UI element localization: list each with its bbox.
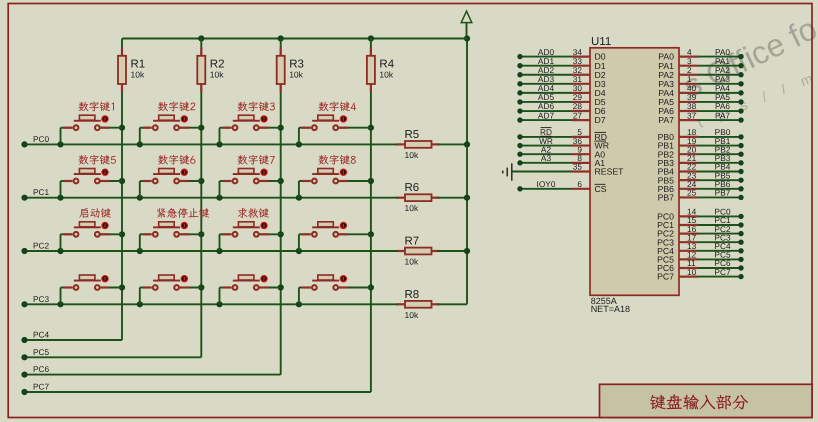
label 数字键7 [238,155,275,165]
terminal dot PC3 [21,301,27,307]
junction PC3 button col 4 [296,301,302,307]
label 数字键5 [79,155,116,165]
svg-text:10k: 10k [289,70,303,80]
terminal dot PC6 [21,372,27,378]
junction PC1 button col 3 [216,195,222,201]
junction column 4 row 4 [368,284,374,290]
wire R5 to rail [437,143,467,145]
svg-text:PA7: PA7 [658,115,674,125]
junction column 4 row 1 [368,125,374,131]
junction R5-rail [464,141,470,147]
terminal dot PC5 [21,354,27,360]
U11 pin 36 WR (net WR) [517,136,609,151]
wire R6 to rail [437,197,467,199]
junction bus-column 3 [278,35,284,41]
U11 pin 10 PC7 (net PC7) [657,267,744,282]
U11 pin 16 PC2 (net PC2) [657,224,744,239]
push-button 求救键 [220,222,281,251]
label 数字键6 [158,155,195,165]
push-button row4 col1 [61,275,123,304]
push-button 数字键2 [140,115,202,144]
junction column 2 row 3 [198,231,204,237]
label 紧急停止键 [157,208,209,218]
U11 pin 9 A0 (net A2) [517,144,605,159]
U11 pin 34 D0 (net AD0) [517,47,605,62]
svg-text:R5: R5 [405,129,420,141]
junction PC1 button col 1 [57,195,63,201]
label 数字键2 [158,101,195,111]
push-button row4 col3 [220,275,281,304]
U11 pin 3 PA1 (net PA1) [658,56,743,71]
push-button 数字键1 [61,115,123,144]
U11 pin 32 D2 (net AD2) [517,65,605,80]
junction rail-bus [464,35,470,41]
junction column 3 row 1 [278,125,284,131]
U11 pin 14 PC0 (net PC0) [657,207,744,222]
push-button 数字键8 [299,169,371,198]
U11 pin 18 PB0 (net PB0) [658,127,744,142]
terminal dot PC0 [21,141,27,147]
terminal dot PC2 [21,248,27,254]
push-button 数字键7 [220,169,281,198]
label 启动键 [79,208,111,218]
svg-text:PC3: PC3 [33,294,50,304]
IC U11 8255A body [590,48,679,295]
svg-text:R7: R7 [405,236,420,248]
junction PC2 button col 2 [137,248,143,254]
junction PC0 button col 4 [296,141,302,147]
svg-text:PC7: PC7 [657,272,674,282]
resistor R1 [118,48,126,93]
title text 键盘输入部分 [650,394,748,409]
junction PC0 button col 1 [57,141,63,147]
wire row PC7 [25,391,371,393]
svg-text:PC0: PC0 [33,134,50,144]
U11 pin 28 D6 (net AD6) [517,101,605,116]
junction column 2 row 1 [198,125,204,131]
U11 pin 30 D4 (net AD4) [517,83,605,98]
ground symbol (rotated) [503,163,512,180]
resistor R5 [397,141,440,148]
resistor R4 [367,48,375,93]
U11 pin 33 D1 (net AD1) [517,56,605,71]
junction column 3 row 2 [278,178,284,184]
svg-text:U11: U11 [591,36,611,48]
junction column 3 row 3 [278,231,284,237]
U11 pin 12 PC5 (net PC5) [657,250,744,265]
svg-text:R6: R6 [405,182,420,194]
label 数字键8 [319,155,356,165]
junction R7-rail [464,248,470,254]
push-button row4 col4 [299,275,371,304]
junction PC2 button col 1 [57,248,63,254]
wire row PC4 [25,339,123,341]
terminal dot PC7 [21,389,27,395]
junction column 1 row 4 [119,284,125,290]
U11 pin 24 PB6 (net PB6) [658,179,744,194]
U11 pin 11 PC6 (net PC6) [657,258,744,273]
U11 pin 2 PA2 (net PA2) [658,65,743,80]
wire power rail vertical [466,39,468,305]
svg-text:37: 37 [687,110,697,120]
svg-text:PC7: PC7 [714,267,731,277]
svg-text:25: 25 [687,188,697,198]
resistor R7 [397,248,440,255]
U11 pin 37 PA7 (net PA7) [658,110,743,125]
U11 pin 20 PB2 (net PB2) [658,144,744,159]
U11 pin 25 PB7 (net PB7) [658,188,744,203]
push-button row3 col4 [299,222,371,251]
U11 pin 29 D5 (net AD5) [517,92,605,107]
junction column 1 row 3 [119,231,125,237]
junction column 4 row 2 [368,178,374,184]
wire column 4 [370,39,372,393]
push-button 紧急停止键 [140,222,202,251]
svg-text:10k: 10k [405,203,419,213]
label 求救键 [238,208,269,218]
svg-text:PC2: PC2 [33,241,50,251]
junction PC0 button col 2 [137,141,143,147]
junction PC2 button col 4 [296,248,302,254]
title block bar [600,384,813,417]
U11 pin 1 PA3 (net PA3) [658,74,743,89]
svg-text:PB7: PB7 [715,188,731,198]
junction bus-column 4 [368,35,374,41]
terminal dot PC4 [21,337,27,343]
resistor R3 [277,48,285,93]
wire top bus [122,38,467,40]
U11 pin 27 D7 (net AD7) [517,110,605,125]
junction column 2 row 4 [198,284,204,290]
wire column 3 [280,39,282,375]
junction PC3 button col 2 [137,301,143,307]
svg-text:PA7: PA7 [715,110,730,120]
junction PC2 button col 3 [216,248,222,254]
svg-text:10k: 10k [405,310,419,320]
svg-text:PC7: PC7 [33,382,50,392]
svg-text:D7: D7 [595,115,606,125]
svg-text:10: 10 [687,267,697,277]
U11 pin 23 PB5 (net PB5) [658,170,744,185]
svg-text:10k: 10k [379,70,393,80]
U11 pin 39 PA5 (net PA5) [658,92,743,107]
junction PC3 button col 1 [57,301,63,307]
resistor R8 [397,301,440,308]
wire R7 to rail [437,250,467,252]
U11 pin 38 PA6 (net PA6) [658,101,743,116]
resistor R2 [197,48,205,93]
resistor R6 [397,194,440,201]
svg-text:CS: CS [595,184,607,194]
U11 pin 13 PC4 (net PC4) [657,241,744,256]
junction column 3 row 4 [278,284,284,290]
svg-text:R8: R8 [405,289,420,301]
U11 pin 22 PB4 (net PB4) [658,162,744,177]
junction PC1 button col 4 [296,195,302,201]
U11 pin 5 RD (net RD) [517,127,607,142]
wire row PC6 [25,374,281,376]
push-button row4 col2 [140,275,202,304]
junction column 1 row 2 [119,178,125,184]
push-button 数字键3 [220,115,281,144]
svg-text:RESET: RESET [595,167,625,177]
U11 pin 6 CS (net IOY0) [517,179,606,194]
wire row PC1 [25,197,399,199]
label 数字键1 [79,101,114,111]
svg-text:10k: 10k [131,70,145,80]
svg-text:10k: 10k [405,257,419,267]
push-button 数字键5 [61,169,123,198]
svg-text:10k: 10k [210,70,224,80]
junction column 1 row 1 [119,125,125,131]
push-button 启动键 [61,222,123,251]
junction column 4 row 3 [368,231,374,237]
junction PC1 button col 2 [137,195,143,201]
svg-text:27: 27 [573,110,583,120]
wire R8 to rail [437,303,467,305]
wire column 2 [200,39,202,358]
svg-text:PC4: PC4 [33,330,50,340]
push-button 数字键6 [140,169,202,198]
svg-text:10k: 10k [405,150,419,160]
junction PC3 button col 3 [216,301,222,307]
svg-text:PC1: PC1 [33,187,50,197]
junction column 2 row 2 [198,178,204,184]
svg-text:NET=A18: NET=A18 [591,304,630,314]
wire row PC3 [25,303,399,305]
wire column 1 [121,39,123,341]
svg-text:6: 6 [577,179,582,189]
watermark text [678,10,818,131]
U11 pin 40 PA4 (net PA4) [658,83,743,98]
label 数字键3 [238,101,275,111]
U11 pin 17 PC3 (net PC3) [657,232,744,247]
svg-text:AD7: AD7 [538,110,555,120]
svg-text:IOY0: IOY0 [537,179,556,189]
U11 pin 31 D3 (net AD3) [517,74,605,89]
wire row PC5 [25,356,202,358]
U11 pin 15 PC1 (net PC1) [657,215,744,230]
U11 pin 8 A1 (net A3) [517,153,605,168]
push-button 数字键4 [299,115,371,144]
power terminal arrow [461,11,472,38]
U11 pin 19 PB1 (net PB1) [658,136,744,151]
label 数字键4 [319,101,357,111]
U11 pin 21 PB3 (net PB3) [658,153,744,168]
svg-text:PC5: PC5 [33,347,50,357]
wire row PC0 [25,143,399,145]
svg-text:35: 35 [573,162,583,172]
svg-text:A3: A3 [541,153,552,163]
junction bus-column 2 [198,35,204,41]
terminal dot PC1 [21,195,27,201]
svg-text:PC6: PC6 [33,364,50,374]
junction R6-rail [464,195,470,201]
junction PC0 button col 3 [216,141,222,147]
U11 pin 35 RESET [512,162,624,177]
U11 pin 4 PA0 (net PA0) [658,47,743,62]
svg-text:PB7: PB7 [658,193,675,203]
wire row PC2 [25,250,399,252]
